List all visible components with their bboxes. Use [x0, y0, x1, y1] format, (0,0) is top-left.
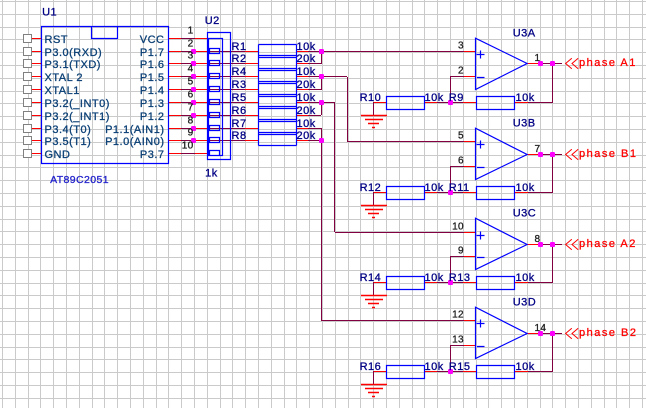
svg-text:10: 10: [182, 141, 194, 152]
svg-text:phase A1: phase A1: [579, 57, 637, 69]
svg-text:10k: 10k: [425, 182, 444, 194]
svg-text:VCC: VCC: [140, 34, 165, 46]
svg-text:10k: 10k: [425, 272, 444, 284]
svg-text:8: 8: [188, 116, 194, 127]
svg-text:P1.7: P1.7: [140, 47, 165, 59]
svg-text:7: 7: [188, 103, 194, 114]
svg-text:P3.2(_INT1): P3.2(_INT1): [45, 111, 110, 123]
svg-text:10: 10: [452, 222, 464, 233]
svg-text:phase B1: phase B1: [579, 148, 637, 160]
svg-text:U3D: U3D: [513, 297, 537, 309]
svg-text:R4: R4: [232, 66, 247, 78]
svg-text:20k: 20k: [297, 79, 316, 91]
svg-text:XTAL 2: XTAL 2: [45, 72, 83, 84]
svg-text:10k: 10k: [297, 66, 316, 78]
svg-text:10k: 10k: [297, 118, 316, 130]
svg-text:U3A: U3A: [513, 28, 536, 40]
svg-text:R10: R10: [360, 92, 382, 104]
svg-text:20k: 20k: [297, 130, 316, 142]
svg-text:P1.6: P1.6: [140, 59, 165, 71]
svg-text:R11: R11: [449, 182, 470, 194]
svg-text:14: 14: [535, 323, 547, 334]
svg-text:R9: R9: [449, 92, 464, 104]
svg-text:10k: 10k: [425, 92, 444, 104]
svg-text:phase A2: phase A2: [579, 238, 637, 250]
svg-text:U3C: U3C: [513, 208, 537, 220]
svg-text:U3B: U3B: [513, 118, 536, 130]
svg-text:R8: R8: [232, 130, 247, 142]
svg-text:10k: 10k: [425, 361, 444, 373]
svg-text:R1: R1: [232, 41, 247, 53]
svg-text:R6: R6: [232, 105, 247, 117]
svg-text:P1.1(AIN1): P1.1(AIN1): [105, 124, 164, 136]
svg-text:12: 12: [452, 310, 464, 321]
svg-text:R7: R7: [232, 118, 247, 130]
svg-text:R16: R16: [360, 361, 382, 373]
svg-text:P3.7: P3.7: [140, 149, 165, 161]
svg-text:6: 6: [458, 156, 464, 167]
svg-text:7: 7: [535, 144, 541, 155]
svg-text:P3.0(RXD): P3.0(RXD): [45, 47, 103, 59]
svg-text:10k: 10k: [516, 182, 535, 194]
svg-text:R5: R5: [232, 92, 247, 104]
svg-text:20k: 20k: [297, 105, 316, 117]
svg-text:4: 4: [188, 64, 194, 75]
svg-text:P1.0(AIN0): P1.0(AIN0): [105, 136, 164, 148]
svg-text:R3: R3: [232, 79, 247, 91]
svg-text:R13: R13: [449, 272, 471, 284]
svg-text:9: 9: [458, 246, 464, 257]
svg-text:U1: U1: [42, 7, 57, 19]
svg-text:1: 1: [535, 53, 541, 64]
svg-text:AT89C2051: AT89C2051: [50, 174, 109, 186]
svg-text:P1.5: P1.5: [140, 72, 165, 84]
svg-text:GND: GND: [45, 149, 71, 161]
svg-text:P1.2: P1.2: [140, 111, 165, 123]
svg-text:3: 3: [188, 51, 194, 62]
svg-text:10k: 10k: [516, 92, 535, 104]
svg-text:R14: R14: [360, 272, 382, 284]
svg-text:1: 1: [188, 26, 194, 37]
svg-text:U2: U2: [205, 15, 220, 27]
svg-text:5: 5: [458, 131, 464, 142]
svg-text:XTAL1: XTAL1: [45, 85, 80, 97]
svg-text:8: 8: [535, 234, 541, 245]
svg-text:13: 13: [452, 335, 464, 346]
svg-text:P3.1(TXD): P3.1(TXD): [45, 59, 101, 71]
svg-text:20k: 20k: [297, 53, 316, 65]
svg-text:9: 9: [188, 128, 194, 139]
svg-text:P3.5(T1): P3.5(T1): [45, 136, 92, 148]
svg-text:R12: R12: [360, 182, 382, 194]
svg-text:5: 5: [188, 77, 194, 88]
svg-text:phase B2: phase B2: [579, 327, 637, 339]
svg-text:P3.2(_INT0): P3.2(_INT0): [45, 98, 110, 110]
svg-text:1k: 1k: [205, 168, 218, 180]
svg-text:10k: 10k: [297, 92, 316, 104]
svg-text:RST: RST: [45, 34, 69, 46]
svg-text:R15: R15: [449, 361, 471, 373]
svg-text:10k: 10k: [297, 41, 316, 53]
svg-text:P3.4(T0): P3.4(T0): [45, 124, 92, 136]
svg-text:10k: 10k: [516, 361, 535, 373]
svg-text:3: 3: [458, 41, 464, 52]
svg-text:10k: 10k: [516, 272, 535, 284]
svg-text:R2: R2: [232, 53, 247, 65]
svg-text:P1.4: P1.4: [140, 85, 165, 97]
svg-text:2: 2: [188, 39, 194, 50]
svg-text:P1.3: P1.3: [140, 98, 165, 110]
svg-text:6: 6: [188, 90, 194, 101]
svg-text:2: 2: [458, 66, 464, 77]
